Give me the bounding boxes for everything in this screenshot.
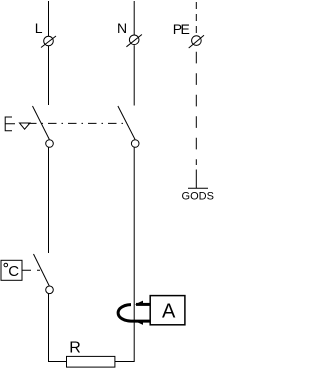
svg-text:L: L	[35, 20, 43, 36]
svg-text:N: N	[117, 20, 127, 36]
svg-text:PE: PE	[173, 21, 190, 37]
svg-text:R: R	[69, 340, 81, 357]
svg-text:C: C	[8, 263, 19, 280]
svg-text:A: A	[162, 301, 176, 323]
svg-text:GODS: GODS	[182, 190, 215, 202]
